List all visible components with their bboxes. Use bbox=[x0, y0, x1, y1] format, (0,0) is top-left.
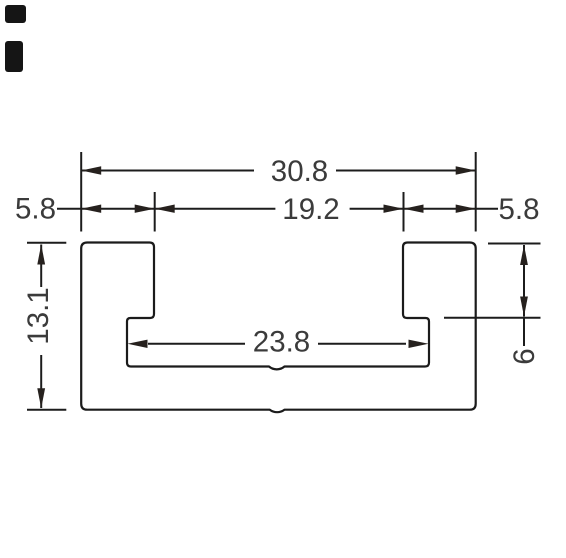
extension line mid-left x=154 bbox=[154, 192, 156, 232]
dimension 6 down arrow bbox=[520, 297, 528, 317]
dimension 5.8-right left arrow bbox=[404, 205, 424, 213]
svg-text:30.8: 30.8 bbox=[271, 155, 328, 188]
dimension 30.8 left arrow bbox=[81, 166, 101, 174]
svg-text:19.2: 19.2 bbox=[282, 193, 339, 226]
svg-text:5.8: 5.8 bbox=[498, 193, 539, 226]
dimension 13.1 top extension line bbox=[27, 242, 66, 244]
dimension 6 top extension line bbox=[488, 243, 541, 245]
extension line outer-right x=476 bbox=[475, 152, 477, 232]
dimension 13.1 line bbox=[40, 245, 42, 409]
dimension 6 up arrow bbox=[520, 245, 528, 265]
dimension 13.1 bottom extension line bbox=[27, 409, 66, 411]
extension line outer-left x=81 bbox=[80, 152, 82, 232]
svg-text:13.1: 13.1 bbox=[22, 287, 55, 344]
dimension 13.1 down arrow bbox=[37, 388, 45, 408]
dimension 5.8-left left arrow bbox=[81, 205, 101, 213]
profile outline (T-slot channel cross-section) bbox=[81, 243, 476, 413]
dimension 23.8 right arrow bbox=[409, 340, 429, 348]
svg-text:5.8: 5.8 bbox=[15, 193, 56, 226]
dimension 23.8 left arrow bbox=[128, 340, 148, 348]
extension line mid-right x=403 bbox=[403, 192, 405, 232]
dimension 5.8-left right arrow bbox=[135, 205, 155, 213]
svg-text:6: 6 bbox=[508, 348, 541, 364]
svg-text:23.8: 23.8 bbox=[253, 326, 310, 359]
dimension 6 bottom extension line bbox=[444, 317, 541, 319]
dimension 23.8 line bbox=[148, 343, 406, 345]
watermark fragment top-left lower bbox=[5, 41, 23, 72]
dimension 6 line bbox=[523, 245, 525, 346]
dimension 5.8-right right arrow bbox=[456, 205, 476, 213]
dimension 19.2 right arrow bbox=[384, 205, 404, 213]
dimension 19.2 left arrow bbox=[155, 205, 175, 213]
watermark fragment top-left upper bbox=[5, 5, 26, 23]
dimension 13.1 up arrow bbox=[37, 245, 45, 265]
dimension 30.8 right arrow bbox=[456, 166, 476, 174]
dimension row 5.8/19.2 line left bbox=[57, 208, 498, 210]
dimension 30.8 line bbox=[81, 170, 476, 172]
